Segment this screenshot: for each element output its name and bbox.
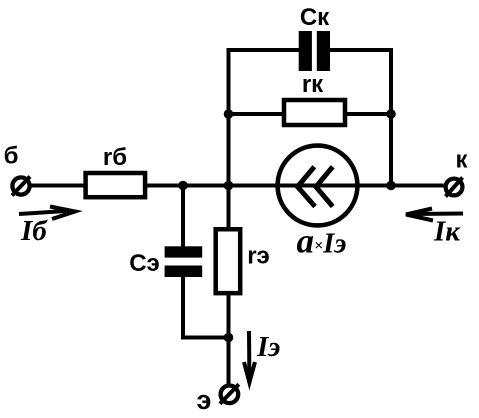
node junction dot rk-right [386, 109, 396, 119]
svg-text:rэ: rэ [247, 243, 270, 270]
current source U1 circle [278, 146, 358, 226]
node junction dot rk-left [224, 109, 234, 119]
resistor rb R1 [86, 173, 146, 197]
arrow Ib [19, 207, 75, 220]
svg-text:rк: rк [302, 71, 324, 98]
current source chevron 2 [316, 167, 333, 207]
svg-text:б: б [4, 143, 19, 170]
terminal e symbol [220, 384, 239, 404]
wire re branch vertical [227, 186, 231, 385]
node junction dot main-center [224, 181, 234, 191]
terminal k symbol [446, 178, 463, 197]
capacitor Ce plates [165, 246, 203, 257]
resistor re R3 [216, 229, 241, 293]
svg-text:э: э [197, 385, 212, 415]
wire rk level horizontal [229, 112, 392, 116]
node junction dot emitter [224, 333, 234, 343]
wire Ce branch top [181, 186, 185, 251]
capacitor Ck plates [299, 31, 312, 71]
svg-text:Iб: Iб [20, 215, 48, 247]
wire main horizontal (b to k) [32, 184, 444, 188]
svg-text:rб: rб [103, 144, 127, 171]
node junction dot Ce-top [178, 181, 188, 191]
current source chevron 1 [298, 167, 316, 207]
svg-text:Ск: Ск [300, 4, 330, 31]
svg-text:Сэ: Сэ [129, 250, 160, 277]
svg-text:Iэ: Iэ [256, 331, 280, 363]
wire top loop right segment [329, 50, 391, 186]
arrow Ie [244, 331, 255, 383]
arrow Ik [406, 209, 463, 221]
wire top loop left segment [229, 50, 301, 229]
wire Ce branch bottom and across [183, 273, 229, 338]
svg-text:Iк: Iк [433, 216, 461, 248]
resistor rk R2 [284, 100, 345, 125]
svg-text:к: к [455, 147, 468, 174]
node junction dot main-right [386, 181, 396, 191]
terminal b symbol [12, 177, 30, 196]
